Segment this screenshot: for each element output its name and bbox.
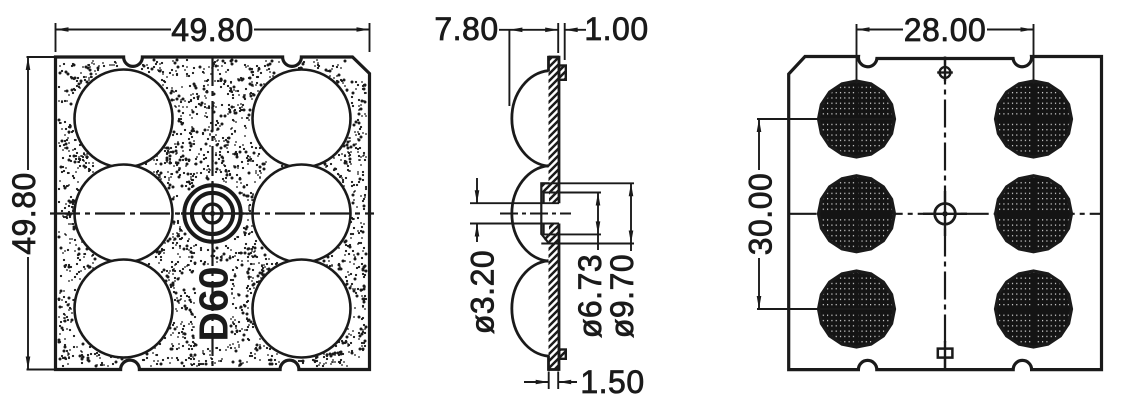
center target ornament (181, 182, 244, 245)
30.00 extension lines through left circles (757, 118, 895, 120)
dim o3.20 (476, 178, 478, 203)
svg-text:28.00: 28.00 (904, 12, 987, 48)
svg-text:49.80: 49.80 (171, 12, 254, 48)
horizontal centerline left view (50, 212, 374, 214)
hole edge lines / dim ext for 3.20 (470, 202, 559, 204)
dim 49.80 left (27, 56, 56, 58)
dim o9.70 (541, 182, 634, 184)
dim 30.00 (758, 119, 760, 170)
left view plate outline (56, 57, 370, 370)
svg-text:ø3.20: ø3.20 (465, 250, 501, 334)
svg-text:1.50: 1.50 (580, 364, 644, 400)
dome arc row3 (512, 261, 549, 357)
vertical centerline left view (211, 56, 213, 371)
svg-text:1.00: 1.00 (584, 11, 648, 47)
dim 7.80 (508, 30, 510, 106)
svg-text:49.80: 49.80 (6, 172, 42, 255)
center hole symbol (935, 204, 956, 225)
bottom mounting tab (559, 350, 566, 359)
middle view: section bar hatched top part (549, 57, 560, 203)
svg-text:30.00: 30.00 (743, 173, 779, 256)
dome arc row1 (512, 71, 549, 167)
right view plate outline (789, 57, 1102, 370)
section bar outline (549, 56, 560, 59)
dome arc row2 (512, 166, 549, 262)
bottom alignment symbol (938, 349, 953, 358)
dim 1.00 (564, 23, 566, 60)
six dark lens circles (back) (819, 81, 895, 157)
svg-text:ø9.70: ø9.70 (604, 254, 640, 338)
center boss cross-section (541, 183, 549, 243)
middle centerline (500, 213, 571, 215)
dim 49.80 top (55, 23, 57, 52)
svg-text:7.80: 7.80 (434, 11, 498, 47)
six lens circles front (75, 70, 173, 168)
dim 1.50 (548, 372, 550, 390)
right view centerlines (944, 57, 946, 370)
dim 28.00 (856, 24, 858, 84)
dim o6.73 (544, 192, 601, 194)
svg-text:ø6.73: ø6.73 (572, 254, 608, 338)
svg-text:D60: D60 (191, 266, 237, 341)
top screw symbol (944, 57, 946, 65)
stipple texture dots (59, 60, 366, 366)
top mounting tab (559, 66, 566, 80)
section bar hatched bottom part (549, 224, 560, 370)
